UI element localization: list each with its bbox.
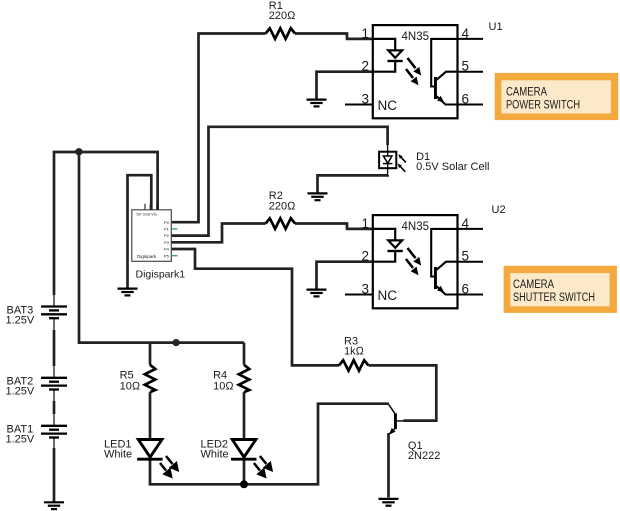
- U1 light arrows: [408, 58, 416, 68]
- ground D1: [308, 193, 328, 200]
- wire D1 cathode to ground: [318, 175, 388, 193]
- camera shutter switch callout: [504, 266, 617, 313]
- wire battery positive rail to Vin: [54, 152, 158, 295]
- svg-text:SHUTTER SWITCH: SHUTTER SWITCH: [513, 292, 595, 304]
- svg-text:Digispark1: Digispark1: [136, 269, 186, 281]
- resistor R4: [239, 365, 250, 392]
- svg-text:5: 5: [462, 249, 470, 264]
- wire BAT1 to ground: [53, 448, 56, 502]
- svg-text:NC: NC: [378, 98, 398, 113]
- ground U2 pin2: [307, 290, 327, 297]
- svg-text:CAMERA: CAMERA: [506, 87, 547, 99]
- wire BAT2 to BAT1: [53, 401, 56, 414]
- wire R1 to U1 pin1: [295, 34, 373, 39]
- wire R3 to Q1 base: [368, 365, 436, 420]
- digispark1 board: [132, 204, 178, 261]
- svg-text:2N222: 2N222: [408, 450, 440, 462]
- ground Q1 emitter: [379, 499, 399, 506]
- svg-text:2: 2: [362, 249, 370, 264]
- svg-text:6: 6: [462, 282, 470, 297]
- wire R5 to LED1: [149, 392, 152, 439]
- svg-text:220Ω: 220Ω: [269, 10, 296, 22]
- svg-text:U1: U1: [489, 21, 503, 33]
- junction node on positive rail: [75, 148, 82, 155]
- svg-text:1: 1: [362, 216, 370, 231]
- svg-text:4N35: 4N35: [402, 31, 430, 43]
- battery BAT2: [41, 366, 67, 402]
- svg-text:1kΩ: 1kΩ: [344, 346, 365, 358]
- U1 internal LED: [373, 39, 395, 51]
- wire R2 to U2 pin1: [295, 224, 373, 229]
- svg-text:P0: P0: [164, 220, 170, 225]
- svg-text:1.25V: 1.25V: [6, 385, 35, 397]
- svg-text:5: 5: [462, 59, 470, 74]
- svg-text:4: 4: [462, 216, 470, 231]
- U2 pin stubs: [345, 229, 483, 295]
- svg-text:10Ω: 10Ω: [213, 381, 234, 393]
- svg-text:1.25V: 1.25V: [6, 433, 35, 445]
- wire rail to R4: [243, 343, 246, 365]
- junction node on LED cathode rail: [240, 480, 248, 488]
- wire P2 to D1 solar cell: [171, 127, 387, 236]
- LED2: [231, 440, 257, 460]
- svg-text:4: 4: [462, 26, 470, 41]
- wire U1 pin2 to ground: [317, 72, 373, 99]
- svg-text:NC: NC: [378, 288, 398, 303]
- U1 pin numbers: [362, 26, 470, 107]
- battery BAT1: [41, 414, 67, 450]
- resistor R5: [145, 365, 156, 392]
- svg-text:1: 1: [362, 26, 370, 41]
- svg-text:10Ω: 10Ω: [120, 381, 141, 393]
- svg-text:2: 2: [362, 59, 370, 74]
- svg-text:P3: P3: [164, 240, 170, 245]
- U2 phototransistor: [431, 229, 457, 277]
- ground below digispark: [118, 289, 138, 296]
- svg-text:3: 3: [362, 282, 370, 297]
- U2 pin numbers: [362, 216, 470, 297]
- U1 phototransistor: [431, 39, 457, 87]
- svg-text:White: White: [201, 448, 229, 460]
- svg-text:P2: P2: [164, 233, 170, 238]
- wire P0 to R1: [171, 34, 265, 223]
- svg-text:U2: U2: [492, 204, 506, 216]
- svg-text:POWER SWITCH: POWER SWITCH: [506, 100, 580, 112]
- svg-text:5V Gnd Vin: 5V Gnd Vin: [137, 212, 157, 217]
- svg-text:CAMERA: CAMERA: [513, 279, 554, 291]
- svg-text:4N35: 4N35: [402, 221, 430, 233]
- wire Q1 emitter to ground: [387, 433, 390, 498]
- battery BAT3: [41, 295, 67, 331]
- wire positive rail down to LED rail: [79, 152, 244, 343]
- solar cell D1: [379, 144, 406, 176]
- U1 pin stubs: [345, 39, 483, 105]
- LED1: [137, 440, 163, 460]
- U2 light arrows: [408, 248, 416, 258]
- resistor R3: [339, 360, 368, 371]
- wire R4 to LED2: [243, 392, 246, 439]
- svg-text:P1: P1: [164, 227, 170, 232]
- wire LED cathode rail to Q1 collector: [150, 404, 389, 485]
- svg-text:Digispark: Digispark: [137, 254, 157, 259]
- wire digispark Gnd pin to ground: [128, 175, 152, 288]
- wire P4 to R3: [171, 249, 339, 365]
- svg-text:R4: R4: [213, 369, 227, 381]
- svg-text:P5: P5: [164, 253, 170, 258]
- LED2 light arrows: [254, 456, 272, 477]
- ground below batteries: [44, 502, 64, 509]
- U2 internal LED: [373, 229, 395, 241]
- svg-text:1.25V: 1.25V: [6, 314, 35, 326]
- svg-text:P4: P4: [164, 247, 170, 252]
- wire LED2 cathode to rail: [243, 459, 246, 484]
- svg-text:220Ω: 220Ω: [269, 201, 296, 213]
- wire P3 to R2: [171, 224, 265, 243]
- resistor R1: [266, 28, 295, 39]
- wire LED rail to R5 R4: [149, 343, 152, 365]
- svg-text:0.5V Solar Cell: 0.5V Solar Cell: [416, 161, 489, 173]
- svg-text:6: 6: [462, 92, 470, 107]
- svg-text:3: 3: [362, 92, 370, 107]
- LED1 light arrows: [160, 456, 178, 477]
- svg-text:White: White: [104, 448, 132, 460]
- transistor Q1: [389, 405, 404, 435]
- junction node on LED supply rail: [173, 339, 180, 346]
- wire U2 pin2 to ground: [317, 262, 373, 289]
- opto-coupler U1: [345, 25, 483, 118]
- resistor R2: [266, 218, 295, 229]
- ground U1 pin2: [307, 100, 327, 107]
- camera power switch callout: [495, 73, 619, 120]
- opto-coupler U2: [345, 215, 483, 308]
- wire battery stack BAT3 to BAT2: [53, 330, 56, 366]
- svg-text:R5: R5: [120, 369, 134, 381]
